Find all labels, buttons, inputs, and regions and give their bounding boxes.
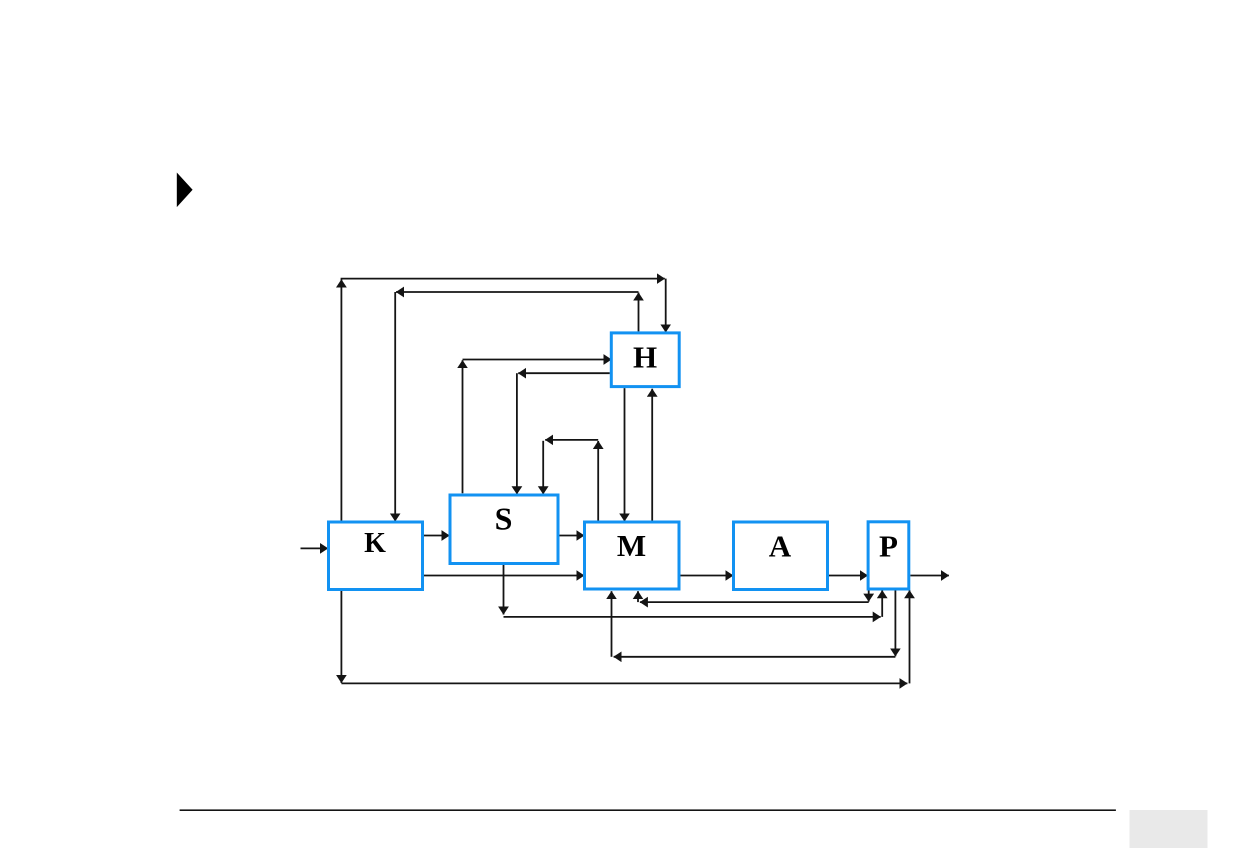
wire H to K: vertical down into K top [394,292,396,521]
wire S top to H: vertical up [462,360,464,493]
wire P bottom down first feedback [868,591,870,602]
svg-text:S: S [495,501,513,537]
wire S to H: horizontal right into H left [463,359,612,361]
wire M right to A left [681,575,734,577]
wire A right to P left [829,575,868,577]
bullet triangle marker top left [177,173,193,208]
wire K bottom down [340,591,342,683]
block M [585,522,680,589]
wire S to P horizontal right at y 617 [504,616,881,618]
wire H left to S: horizontal left [518,372,610,374]
wire K right to M left lower [424,575,584,577]
wire M to S: horizontal left [545,439,598,441]
wire feedback2 up into M bottom [611,591,613,657]
wire H to S: vertical down into S top [516,373,518,494]
wire K right to S left [424,535,450,537]
wire P bottom down second feedback [894,591,896,657]
wire K top to H: vertical up [340,280,342,521]
wire S bottom down [503,565,505,615]
wire K to P up into P bottom right [909,590,911,683]
wire P right to output [910,575,949,577]
block P [868,522,909,589]
wire K to H: horizontal right [341,278,665,280]
block H [611,333,679,387]
wire feedback1 up into M bottom [637,591,639,602]
svg-text:M: M [617,528,646,563]
wire M top to H bottom [651,389,653,521]
wire H bottom to M top [624,388,626,521]
wire K to P horizontal right at y 683 [341,682,907,684]
block K [329,522,423,590]
wire H top to K: vertical up [638,293,640,332]
wire K to H: vertical down into H top [665,279,667,333]
wire S to P up into P bottom [881,590,883,617]
svg-text:A: A [769,529,792,564]
svg-text:P: P [879,528,898,563]
wire M to S: vertical down into S top [542,441,544,494]
footer rule [180,809,1116,811]
wire H to K: horizontal left [396,291,639,293]
svg-text:K: K [364,528,386,559]
svg-text:H: H [633,340,657,375]
wire feedback1 horizontal left at y 602 [640,601,869,603]
wire M top to S: vertical up [597,441,599,521]
footer gray box [1130,810,1208,848]
block A [734,522,828,590]
wire feedback2 horizontal left at y 657 [614,656,896,658]
block S [450,495,558,564]
wire S right to M left [559,535,584,537]
wire input arrow into K left [301,547,329,549]
